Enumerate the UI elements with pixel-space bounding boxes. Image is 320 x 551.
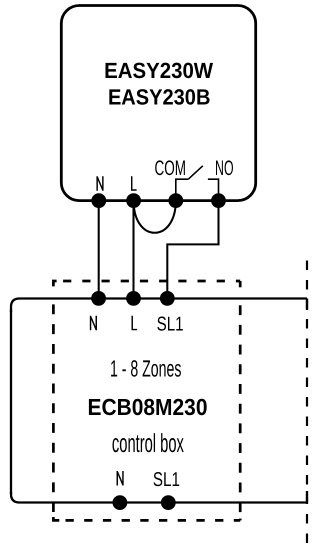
terminal dot N (control box top)	[91, 291, 106, 306]
label N (control box top)	[91, 316, 97, 331]
relay contact: COM riser and blade (switch open)	[176, 166, 203, 200]
svg-text:EASY230B: EASY230B	[108, 84, 211, 109]
terminal dot L (receiver)	[126, 193, 141, 208]
wire elbow top-right (to next zone)	[306, 299, 308, 311]
wire L vertical (receiver L to control box L)	[132, 201, 134, 299]
label L (control box top)	[132, 316, 137, 330]
terminal dot SL1 (control box top)	[160, 291, 175, 306]
terminal dot N (receiver)	[91, 193, 106, 208]
svg-text:EASY230W: EASY230W	[104, 58, 213, 83]
svg-text:SL1: SL1	[157, 314, 184, 336]
label N (receiver terminal)	[97, 176, 103, 191]
wire bottom bus row (through bottom N, SL1 terminals)	[11, 492, 307, 503]
terminal dot L (control box top)	[126, 291, 141, 306]
wire continuation dashed vertical (right)	[306, 261, 308, 544]
svg-text:control box: control box	[112, 428, 184, 458]
terminal dot NO (receiver)	[211, 193, 226, 208]
svg-text:NO: NO	[215, 157, 234, 180]
wire N vertical (receiver N to control box N)	[98, 201, 100, 299]
wire jumper arc L to COM	[134, 201, 176, 233]
control box ECB08M230 (dashed outline)	[53, 281, 240, 520]
terminal dot COM (receiver)	[168, 193, 183, 208]
device box U1 EASY230 receiver	[61, 6, 255, 201]
label N (control box bottom)	[117, 471, 123, 486]
svg-text:COM: COM	[155, 157, 187, 180]
wire top bus row (through N, L, SL1 terminals)	[11, 299, 307, 313]
svg-text:ECB08M230: ECB08M230	[88, 394, 208, 420]
wire elbow bottom-right (to next zone)	[306, 491, 308, 503]
label L (receiver terminal)	[132, 176, 137, 190]
wire left vertical run	[10, 310, 12, 494]
relay contact: NO riser and seat	[208, 179, 219, 200]
terminal dot SL1 (control box bottom)	[161, 495, 176, 510]
wire NO to SL1 (down, left, down)	[167, 201, 218, 299]
terminal dot N (control box bottom)	[113, 495, 128, 510]
svg-text:1 - 8 Zones: 1 - 8 Zones	[110, 355, 182, 381]
svg-text:SL1: SL1	[153, 469, 180, 491]
